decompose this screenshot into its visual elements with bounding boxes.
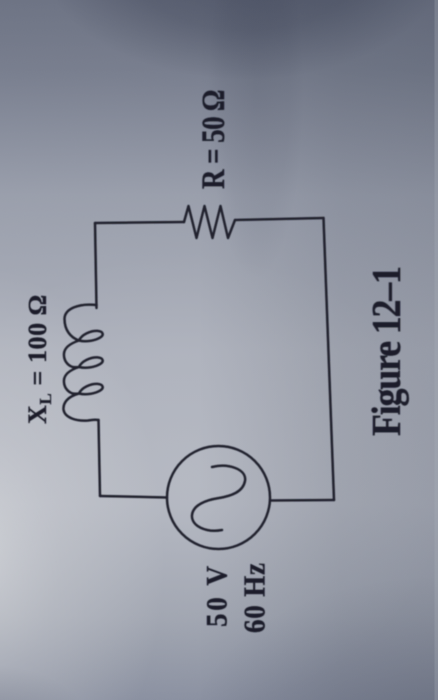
svg-text:60 Hz: 60 Hz <box>238 563 272 633</box>
wire bottom-right to source <box>271 499 335 502</box>
sine wave inside source <box>192 466 245 531</box>
inductor XL coil <box>63 305 102 421</box>
svg-text:R = 50 Ω: R = 50 Ω <box>196 90 232 189</box>
wire left vertical upper (coil to top corner) <box>95 223 97 308</box>
svg-text:Figure 12–1: Figure 12–1 <box>364 266 410 436</box>
wire top-left segment (left corner to resistor) <box>95 222 184 223</box>
wire resistor to top-right corner <box>235 218 324 220</box>
AC source V1 circle <box>167 446 270 549</box>
wire source to bottom-left corner <box>100 496 167 498</box>
wire left vertical lower <box>99 420 101 496</box>
resistor R zigzag <box>184 206 235 238</box>
wire right vertical <box>324 218 335 500</box>
